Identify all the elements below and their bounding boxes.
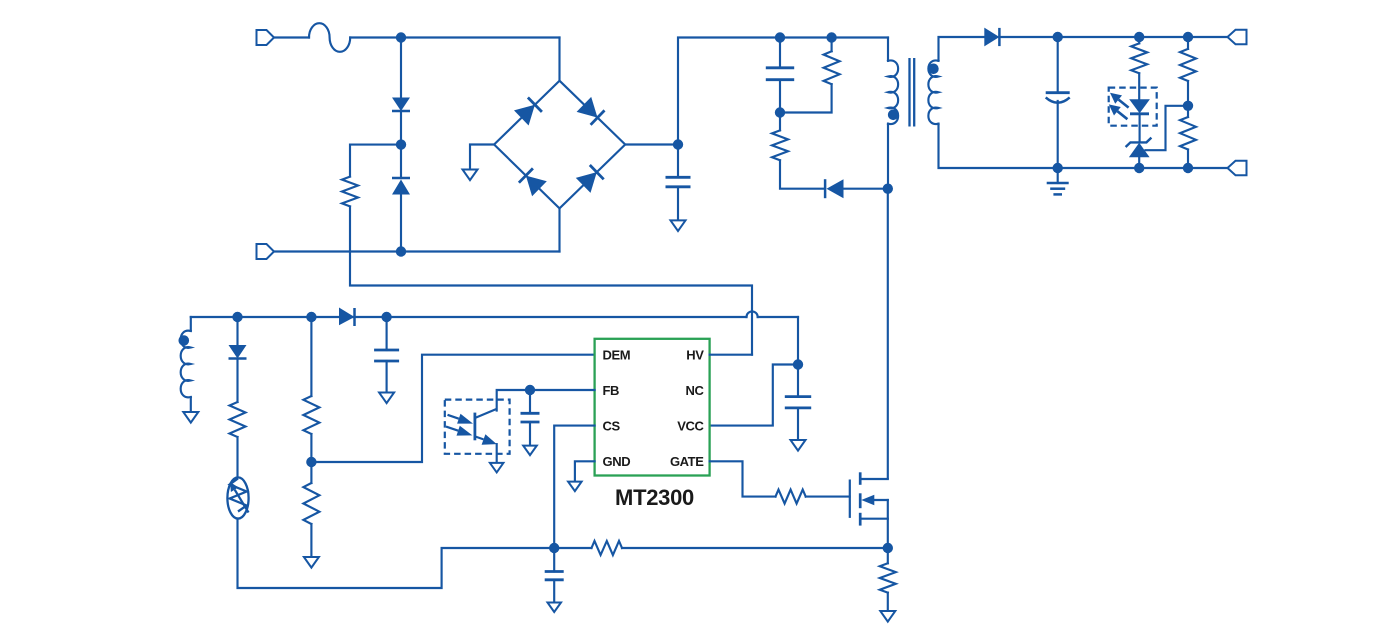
LED emission arrows [1109, 93, 1129, 120]
op-amp U1 MT2300 body [595, 339, 710, 476]
ground [463, 170, 478, 181]
node [232, 312, 242, 322]
wire [238, 519, 555, 589]
pin label NC [686, 383, 705, 398]
diode D4 output rectifier [984, 28, 999, 47]
wire [939, 37, 985, 61]
wire CS net [554, 426, 594, 548]
resistor R7 [230, 402, 246, 478]
wire VCC net [710, 317, 798, 426]
svg-text:NC: NC [686, 383, 705, 398]
node [1183, 32, 1193, 42]
diode D2 [392, 145, 410, 252]
svg-text:GND: GND [603, 454, 631, 469]
pin label HV [686, 348, 704, 363]
wire [400, 111, 402, 145]
terminal J4 output return [1228, 161, 1247, 176]
transformer T1 secondary winding [928, 60, 938, 124]
label MT2300 [615, 485, 694, 510]
optocoupler LED [1129, 99, 1150, 142]
ground [568, 482, 582, 492]
diode D1 [392, 98, 410, 112]
transformer core [910, 58, 915, 127]
node [306, 312, 316, 322]
resistor R2 snubber [780, 38, 840, 113]
svg-text:GATE: GATE [670, 454, 704, 469]
resistor R8 [303, 317, 319, 462]
node [1183, 101, 1193, 111]
resistor R3 [772, 113, 824, 189]
capacitor C5 FB [521, 390, 540, 446]
node [549, 543, 559, 553]
node [775, 107, 785, 117]
diode D3 clamp [825, 179, 888, 198]
wire FB net [497, 390, 595, 411]
svg-text:DEM: DEM [603, 348, 631, 363]
photoresistor LDR1 [227, 477, 248, 518]
node [306, 457, 316, 467]
bridge diode BD4 [576, 165, 604, 193]
node [673, 139, 683, 149]
bridge diode BD2 [577, 97, 605, 125]
wire [558, 208, 560, 251]
pin label DEM [603, 348, 631, 363]
transformer T1 primary winding [888, 60, 898, 124]
terminal J2 AC neutral input [257, 244, 560, 259]
wire GND pin [575, 461, 595, 481]
resistor R10 sense [880, 548, 896, 611]
pin label GATE [670, 454, 704, 469]
resistor R1 startup [342, 177, 358, 207]
terminal J1 AC line input [257, 30, 310, 45]
node [396, 139, 406, 149]
wire GATE net [710, 461, 776, 496]
optocoupler U2 transistor box [445, 400, 510, 454]
capacitor C2 snubber [766, 38, 794, 113]
diode D7 [339, 308, 355, 327]
ground [671, 220, 686, 231]
resistor R5 divider upper [1180, 37, 1196, 106]
bridge diode BD3 [519, 168, 547, 196]
aux rail wire [191, 311, 798, 317]
wire [999, 36, 1227, 38]
svg-text:MT2300: MT2300 [615, 485, 694, 510]
zener diode DZ1 [1126, 138, 1152, 168]
ground [880, 611, 895, 622]
node [883, 184, 893, 194]
node [381, 312, 391, 322]
node [1183, 163, 1193, 173]
wire [678, 38, 888, 145]
primary polarity dot [888, 110, 899, 121]
bridge diode BD1 [514, 98, 542, 126]
wire [350, 36, 559, 38]
svg-text:CS: CS [603, 418, 621, 433]
earth ground [1047, 168, 1069, 194]
capacitor C4 VCC [785, 365, 811, 441]
capacitor C7 output electrolytic [1046, 37, 1070, 168]
inductor L1 aux winding [181, 317, 191, 412]
bridge rectifier outline [494, 38, 625, 209]
ground [523, 446, 537, 456]
wire drain [887, 189, 889, 478]
capacitor C6 CS filter [545, 548, 564, 603]
diode D6 [229, 317, 247, 402]
ground [379, 393, 394, 404]
resistor R11 CS [554, 541, 888, 555]
secondary polarity dot [928, 64, 939, 75]
node [1053, 32, 1063, 42]
pin label VCC [677, 418, 704, 433]
wire feedback tap [1145, 106, 1188, 150]
ground [791, 440, 806, 451]
svg-text:VCC: VCC [677, 418, 704, 433]
pin label GND [603, 454, 631, 469]
wire [350, 206, 752, 354]
node [1053, 163, 1063, 173]
wire [887, 38, 889, 61]
resistor R4 LED series [1131, 37, 1147, 99]
svg-text:FB: FB [603, 383, 620, 398]
resistor R12 gate [776, 490, 850, 504]
terminal J3 output positive [1228, 30, 1247, 45]
node [525, 385, 535, 395]
node [1134, 32, 1144, 42]
aux winding polarity dot [179, 335, 190, 346]
ground [304, 557, 319, 568]
wire DEM net [311, 355, 594, 462]
wire [470, 145, 494, 170]
pin label FB [603, 383, 620, 398]
pin label CS [603, 418, 621, 433]
wire [939, 124, 1228, 168]
resistor R6 divider lower [1180, 106, 1196, 168]
transistor Q1 MOSFET [850, 472, 888, 548]
node [1134, 163, 1144, 173]
node [396, 32, 406, 42]
wire [625, 143, 678, 145]
ground [490, 463, 504, 473]
node [775, 32, 785, 42]
resistor R9 [303, 462, 319, 557]
node [793, 359, 803, 369]
capacitor C1 bulk [666, 145, 691, 221]
svg-text:HV: HV [686, 348, 704, 363]
wire HV pin stub [710, 354, 752, 356]
ground [183, 412, 198, 423]
phototransistor light arrows [446, 414, 473, 436]
node [826, 32, 836, 42]
optocoupler U2 LED box [1109, 88, 1157, 126]
node [883, 543, 893, 553]
ground [548, 603, 562, 613]
wire [350, 145, 401, 177]
wire [400, 38, 402, 98]
wire [887, 124, 889, 189]
capacitor C3 [374, 317, 399, 393]
node [396, 246, 406, 256]
fuse F1 [309, 23, 350, 52]
optocoupler phototransistor [475, 409, 497, 463]
